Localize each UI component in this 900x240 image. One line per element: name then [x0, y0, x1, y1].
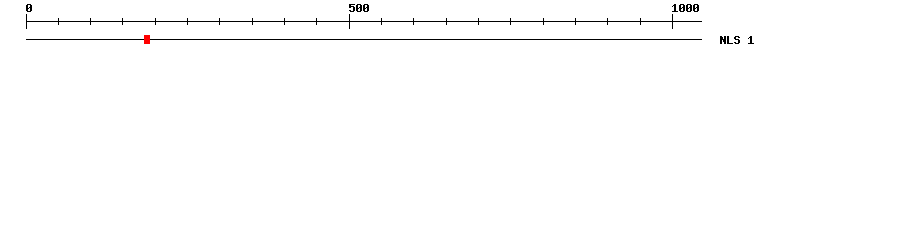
ruler label 500: [349, 4, 369, 12]
minor tick at x=607: [607, 18, 608, 25]
minor tick at x=58: [58, 18, 59, 25]
protein sequence feature map: ruler 0-1000 + NLS feature track: [0, 0, 900, 58]
minor tick at x=90: [90, 18, 91, 25]
sequence backbone line: [26, 39, 702, 40]
background: [0, 0, 900, 58]
minor tick at x=316: [316, 18, 317, 25]
minor tick at x=284: [284, 18, 285, 25]
minor tick at x=381: [381, 18, 382, 25]
minor tick at x=187: [187, 18, 188, 25]
feature label NLS 1: [720, 36, 754, 44]
minor tick at x=252: [252, 18, 253, 25]
major tick 1000: [672, 14, 673, 29]
minor tick at x=122: [122, 18, 123, 25]
minor tick at x=155: [155, 18, 156, 25]
minor tick at x=510: [510, 18, 511, 25]
minor tick at x=575: [575, 18, 576, 25]
ruler axis line: [26, 21, 702, 22]
ruler label 1000: [672, 4, 699, 12]
feature box NLS 1 (red): [144, 35, 150, 44]
minor tick at x=219: [219, 18, 220, 25]
minor tick at x=543: [543, 18, 544, 25]
minor tick at x=446: [446, 18, 447, 25]
minor tick at x=413: [413, 18, 414, 25]
minor tick at x=478: [478, 18, 479, 25]
major tick 500: [349, 14, 350, 29]
major tick 0: [26, 14, 27, 29]
ruler label 0: [26, 4, 32, 12]
minor tick at x=640: [640, 18, 641, 25]
